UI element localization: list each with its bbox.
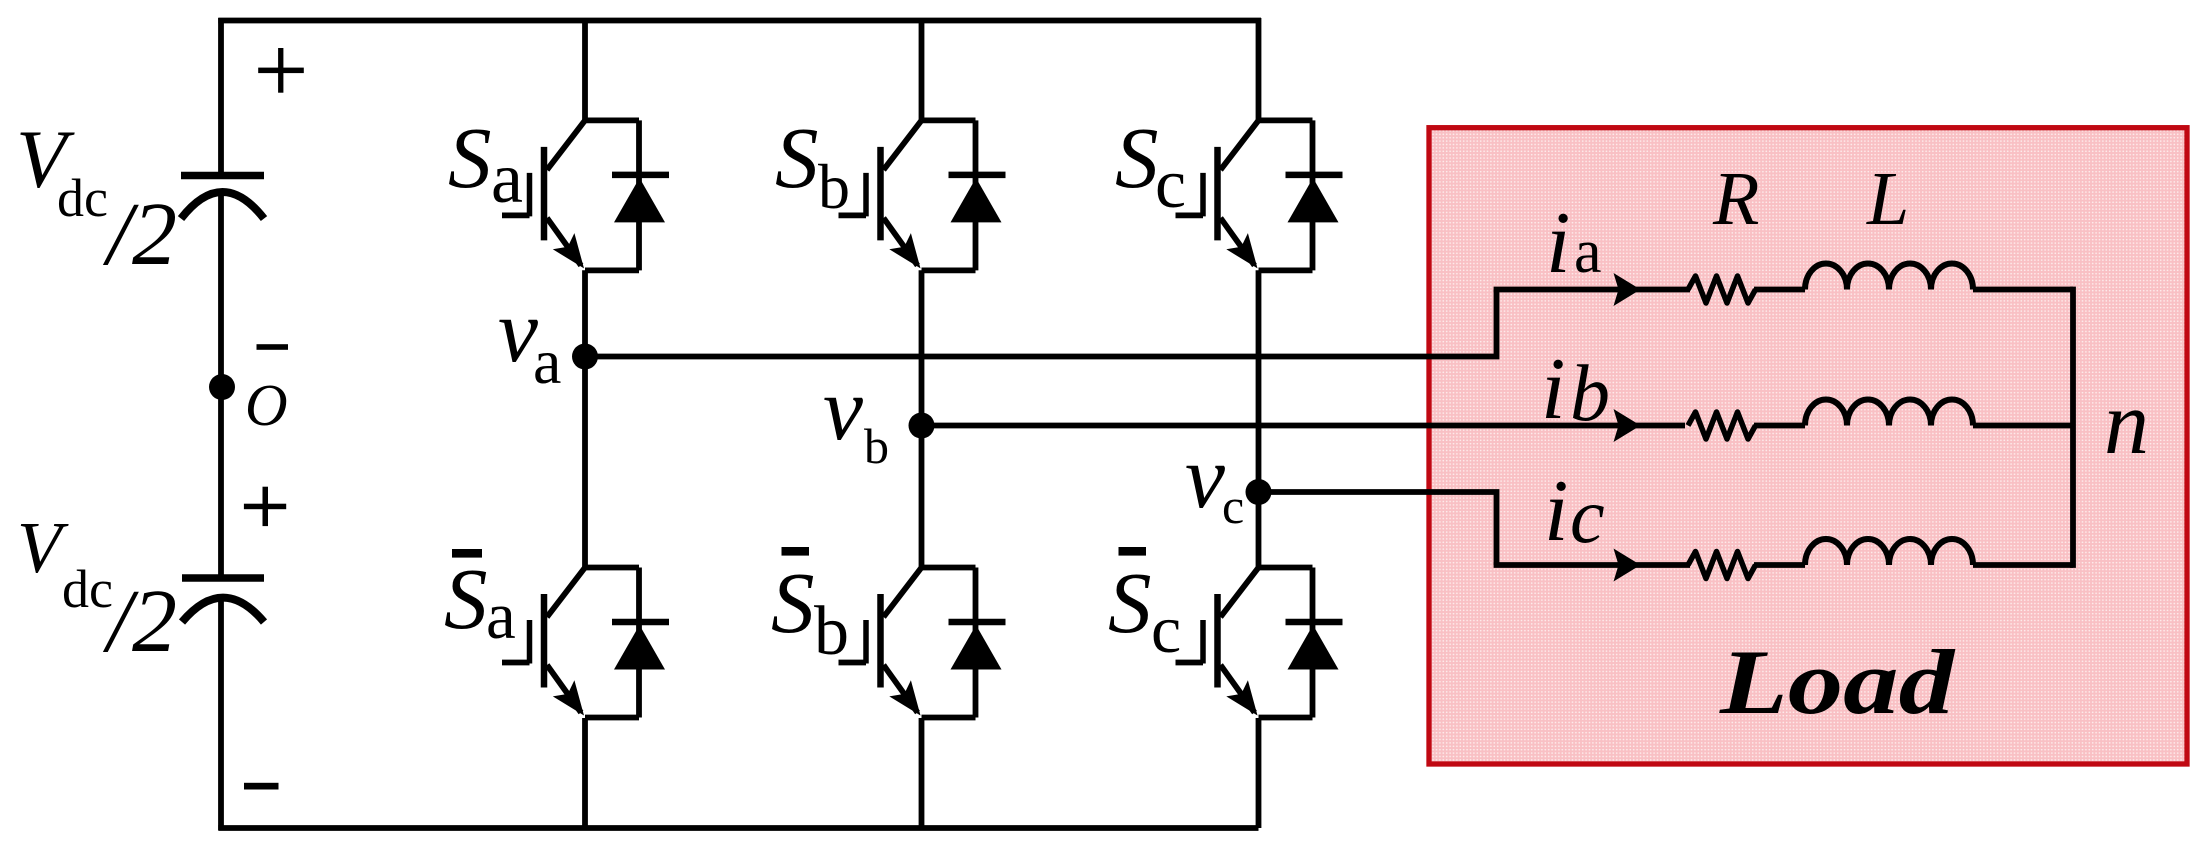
svg-text:S: S <box>1108 554 1152 651</box>
wire: branch b tail <box>1973 423 2073 429</box>
resistor R (phase b) <box>1688 412 1756 439</box>
wire: branch b mid <box>1754 423 1805 429</box>
wire: leg A middle segment <box>582 270 588 567</box>
IGBT switch Sb with antiparallel diode <box>839 120 1006 270</box>
wire: DC-link left rail lower segment <box>218 596 224 830</box>
wire: leg B top stub <box>919 18 925 120</box>
svg-text:S: S <box>444 550 488 647</box>
svg-text:dc: dc <box>57 168 108 228</box>
svg-text:L: L <box>1866 157 1909 241</box>
capacitor C2 curved plate <box>182 598 264 622</box>
svg-text:v: v <box>823 360 863 459</box>
polarity - (lower capacitor) <box>244 783 279 790</box>
polarity - (upper capacitor) <box>257 344 289 350</box>
svg-text:/2: /2 <box>102 185 177 284</box>
svg-text:S: S <box>448 109 492 206</box>
svg-text:Load: Load <box>1719 632 1956 734</box>
wire: branch a lead-in <box>1494 287 1690 293</box>
IGBT switch Sb-bar with antiparallel diode <box>839 568 1006 718</box>
wire: leg C bottom segment <box>1256 718 1262 828</box>
wire: leg A top stub <box>582 18 588 120</box>
svg-text:S: S <box>775 109 819 206</box>
svg-text:n: n <box>2104 374 2149 473</box>
svg-text:i: i <box>1546 195 1570 292</box>
resistor R (phase a) <box>1688 276 1756 303</box>
svg-text:S: S <box>771 554 815 651</box>
wire: phase a output <box>585 290 1497 357</box>
wire: branch c mid <box>1754 562 1805 568</box>
capacitor C1 curved plate <box>181 192 264 219</box>
svg-text:v: v <box>498 282 538 381</box>
svg-text:i: i <box>1544 463 1568 560</box>
node vc dot <box>1246 479 1272 505</box>
svg-text:c: c <box>1151 591 1181 667</box>
svg-text:a: a <box>533 326 561 397</box>
svg-text:S: S <box>1115 109 1159 206</box>
svg-text:c: c <box>1155 146 1186 223</box>
wire: leg B middle segment <box>919 270 925 567</box>
resistor R (phase c) <box>1688 552 1756 579</box>
node vb dot <box>909 413 935 439</box>
inductor L (phase a) <box>1805 264 1973 290</box>
svg-text:b: b <box>818 151 850 222</box>
IGBT switch Sa with antiparallel diode <box>502 120 669 270</box>
capacitor C1 (Vdc/2 upper): flat plate <box>181 172 264 180</box>
wire: negative DC bus (bottom rail) <box>218 825 1258 831</box>
wire: branch c tail <box>1973 562 2073 568</box>
wire: leg A bottom segment <box>582 718 588 828</box>
svg-text:b: b <box>814 593 849 670</box>
inductor L (phase c) <box>1805 539 1973 565</box>
polarity + (upper capacitor) <box>258 68 304 74</box>
svg-text:v: v <box>1185 428 1225 527</box>
svg-text:a: a <box>491 138 523 218</box>
wire: positive DC bus (top rail) <box>218 18 1261 24</box>
node O dot <box>209 374 235 400</box>
svg-text:c: c <box>1222 478 1244 534</box>
load box <box>1429 128 2187 764</box>
current arrow ib <box>1614 409 1641 442</box>
wire: leg B bottom segment <box>919 718 925 828</box>
svg-text:c: c <box>1570 472 1605 559</box>
node va dot <box>572 344 598 370</box>
polarity + (lower capacitor) <box>244 504 286 510</box>
label Sb-bar overline <box>782 547 810 556</box>
wire: phase c output <box>1259 492 1497 565</box>
wire: branch a mid <box>1754 287 1805 293</box>
wire: leg C top stub <box>1256 18 1262 120</box>
label Sc-bar overline <box>1119 547 1147 556</box>
svg-text:/2: /2 <box>102 572 177 671</box>
svg-text:a: a <box>1574 218 1602 286</box>
svg-text:b: b <box>864 418 889 474</box>
wire: DC-link left rail upper segment <box>218 18 224 172</box>
IGBT switch Sc with antiparallel diode <box>1176 120 1343 270</box>
inductor L (phase b) <box>1805 400 1973 426</box>
IGBT switch Sc-bar with antiparallel diode <box>1176 568 1343 718</box>
capacitor C2 (Vdc/2 lower): flat plate <box>182 574 264 582</box>
svg-text:O: O <box>245 372 288 438</box>
svg-text:i: i <box>1541 341 1565 438</box>
wire: DC-link left rail middle segment <box>218 192 224 575</box>
svg-text:dc: dc <box>62 559 113 619</box>
wire: branch c lead-in <box>1494 562 1690 568</box>
IGBT switch Sa-bar with antiparallel diode <box>502 568 669 718</box>
wire: neutral bus vertical <box>2070 287 2076 568</box>
svg-text:R: R <box>1712 157 1759 241</box>
svg-text:a: a <box>486 579 516 653</box>
svg-text:b: b <box>1570 350 1610 438</box>
wire: phase b output / branch b lead-in <box>922 423 1686 429</box>
wire: leg C middle segment <box>1256 270 1262 567</box>
wire: branch a tail <box>1973 287 2073 293</box>
current arrow ic <box>1614 549 1641 582</box>
current arrow ia <box>1614 273 1641 306</box>
label Sa-bar overline <box>452 549 482 558</box>
